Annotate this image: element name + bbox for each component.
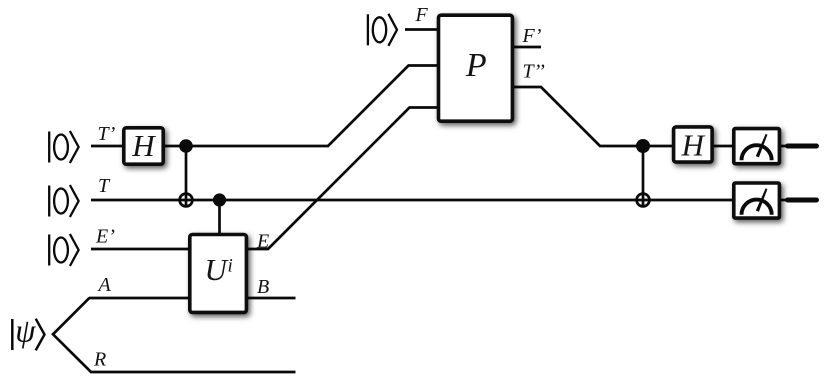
svg-text:U: U	[205, 252, 230, 287]
svg-text:T’: T’	[98, 123, 116, 145]
svg-text:B: B	[257, 276, 269, 298]
ket |0> on E' rail	[49, 234, 78, 266]
wire T' input stub	[91, 145, 123, 148]
svg-text:H: H	[681, 128, 706, 163]
control dot CNOT-2	[636, 139, 650, 153]
wire vertical CNOT-1 link	[185, 146, 188, 208]
classical thick wire 2	[788, 198, 817, 203]
CNOT-1 target	[180, 194, 193, 207]
ket |0> on T rail	[49, 185, 78, 217]
svg-text:F’: F’	[522, 25, 542, 47]
wire vertical control link to U	[218, 200, 221, 234]
wire meter-2 output stub	[780, 199, 792, 202]
ket |0> on T' rail	[49, 131, 78, 163]
wire T' from H to P (with 45-degree rise)	[164, 66, 438, 147]
wire H to meter-1	[713, 145, 733, 148]
classical thick wire 1	[788, 144, 817, 149]
svg-text:i: i	[228, 256, 233, 277]
svg-text:P: P	[465, 47, 487, 84]
gate P	[439, 15, 513, 121]
ket |0> on F rail	[368, 14, 397, 46]
svg-text:T: T	[98, 175, 111, 197]
CNOT-2 target	[637, 194, 650, 207]
gate H2 (right Hadamard)	[674, 127, 713, 163]
wire E' input to U	[91, 248, 190, 251]
wire meter-1 output stub	[780, 145, 792, 148]
wire T'' output descending to measurement rail	[514, 87, 673, 146]
svg-text:H: H	[131, 128, 156, 163]
svg-text:F: F	[415, 4, 429, 26]
svg-text:A: A	[97, 274, 112, 296]
wire E from U to P (with 45-degree rise)	[247, 108, 438, 250]
svg-text:E: E	[256, 231, 269, 253]
wire R	[90, 371, 296, 374]
svg-text:R: R	[93, 349, 106, 371]
wire F input to P	[405, 28, 438, 31]
svg-text:T’’: T’’	[523, 61, 546, 83]
wire fork from |psi>	[53, 298, 91, 372]
meter M1 (measurement)	[734, 129, 780, 164]
svg-text:E’: E’	[95, 226, 115, 248]
wire B output	[247, 297, 296, 300]
control dot for U	[213, 193, 226, 206]
ket |psi>	[12, 314, 44, 351]
wire F' output	[514, 46, 541, 49]
gate H1 (left Hadamard)	[124, 128, 163, 164]
meter M2 (measurement)	[734, 183, 780, 218]
control dot CNOT-1	[179, 139, 193, 153]
wire vertical CNOT-2 link	[642, 146, 645, 208]
wire T (second rail)	[91, 199, 732, 202]
wire A input to U	[89, 297, 190, 300]
gate U^i	[190, 235, 247, 313]
svg-text:ψ: ψ	[15, 314, 36, 350]
